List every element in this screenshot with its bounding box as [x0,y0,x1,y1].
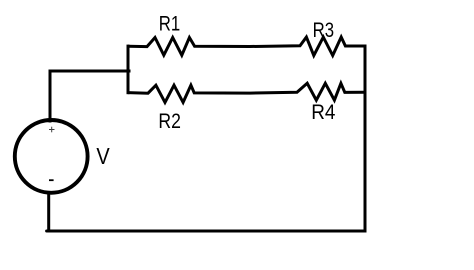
svg-text:V: V [96,143,110,170]
svg-text:R4: R4 [311,101,335,124]
svg-text:R1: R1 [159,13,180,36]
svg-text:R3: R3 [313,19,334,42]
svg-text:R2: R2 [158,109,181,133]
